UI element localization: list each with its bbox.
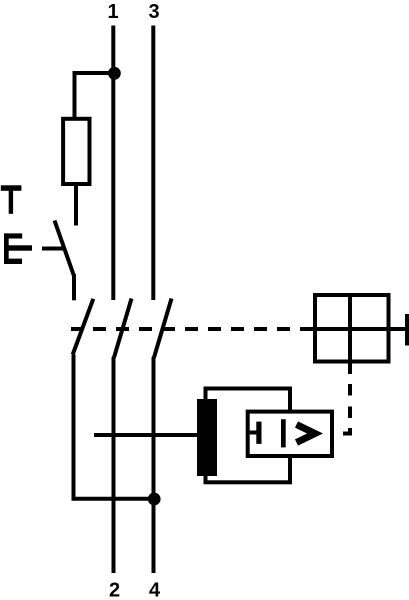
svg-text:1: 1 — [107, 1, 118, 23]
secondary winding loop — [206, 389, 291, 483]
wire from junction to resistor — [75, 73, 115, 120]
svg-text:4: 4 — [149, 580, 161, 600]
wire push rod link — [42, 247, 64, 251]
wire line 1 upper conductor — [111, 26, 115, 301]
wire test branch return — [74, 355, 154, 499]
test switch blade S0 — [55, 221, 75, 277]
switch contact pole 1 blade — [114, 299, 132, 358]
wire line 4 lower conductor — [152, 357, 156, 573]
switch contact test pole blade — [73, 299, 94, 355]
wire resistor bottom lead — [74, 184, 78, 226]
current transformer core bar — [197, 399, 217, 476]
wire mechanism to handle — [391, 327, 406, 331]
relay greater-than symbol — [297, 425, 316, 443]
operating mechanism box — [313, 293, 391, 364]
resistor R test — [63, 119, 89, 184]
dashed linkage mechanism to relay — [343, 364, 350, 434]
actuator label T — [1, 185, 22, 214]
relay input terminal mark — [250, 422, 262, 444]
node junction dot on line 1 — [108, 67, 121, 80]
wire primary conductor through core — [94, 433, 197, 437]
relay current bar symbol — [281, 419, 286, 447]
dashed mechanical linkage horizontal — [71, 327, 313, 331]
wire test blade to pole — [72, 274, 76, 300]
wire line 3 upper conductor — [151, 26, 155, 301]
svg-text:2: 2 — [109, 580, 120, 600]
switch contact pole 2 blade — [154, 299, 172, 358]
handle bar — [405, 314, 409, 346]
trip relay box — [248, 412, 332, 456]
push-button actuator E — [4, 233, 32, 264]
node junction dot on line 4 — [148, 493, 161, 506]
svg-text:3: 3 — [148, 1, 159, 23]
wire line 2 lower conductor — [112, 357, 116, 573]
